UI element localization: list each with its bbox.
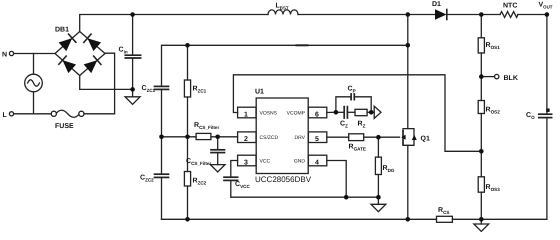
svg-text:CZC2: CZC2 [140,175,154,183]
svg-text:ROS2: ROS2 [486,107,501,115]
svg-text:5: 5 [315,136,319,143]
resistor ROS1 [478,15,484,101]
svg-text:1: 1 [244,112,248,119]
svg-text:RZC2: RZC2 [193,178,207,186]
capacitor CZC1 [155,86,169,136]
wire bottom rail right [452,218,547,220]
capacitor Cin [125,15,140,90]
svg-text:RZ: RZ [358,121,366,129]
pin 1 box [238,107,256,118]
ground (comp, sideways) [374,106,381,118]
wire pin3 to CVCC [231,161,238,178]
svg-text:DRV: DRV [295,135,306,141]
bridge diode top-left [59,34,76,51]
wire pin4 to ground line [327,161,346,198]
wire VOSNS sense: pin1 up and across to ROS2/ROS3 tap [233,75,481,152]
capacitor CVCC [224,177,238,197]
ground (bridge/Cin) [125,89,140,104]
wire NTC to Vout [518,14,547,16]
resistor RCS_Filter [196,133,211,139]
pin 4 box [308,155,326,166]
pin 2 box [238,132,256,143]
wire top rail right of D1 [447,14,500,16]
svg-text:CP: CP [348,86,356,94]
wire fuse to bridge right vertex [84,53,115,114]
svg-text:RCS: RCS [438,207,449,215]
L terminal [9,112,51,116]
AC source [25,54,43,114]
svg-text:4: 4 [315,160,319,167]
wire CZ to RZ [347,111,355,113]
capacitor CCS_Filter [211,137,225,165]
bridge diode bottom-left [59,56,76,73]
resistor ROS2 [478,101,484,177]
svg-text:ROS3: ROS3 [486,184,501,192]
svg-text:LBST: LBST [276,3,289,11]
svg-text:VOUT: VOUT [539,2,553,10]
wire signal ground line [231,196,379,198]
resistor RDG [375,137,381,197]
svg-text:CVCC: CVCC [235,181,250,189]
wire bottom rail [162,218,437,220]
svg-text:ROS1: ROS1 [486,42,501,50]
wire RGATE to gate [364,136,400,138]
svg-text:VOSNS: VOSNS [260,110,278,116]
capacitor CZ [344,107,347,118]
wire pin6 to comp network [336,111,344,113]
wire top rail left [80,15,268,32]
ground (control) [371,197,386,212]
inductor LBST [268,10,298,15]
diode D1 [435,9,447,19]
svg-text:CCS_Filter: CCS_Filter [186,158,211,166]
resistor RZC1 [184,45,190,137]
svg-text:VCC: VCC [260,158,271,164]
svg-text:6: 6 [315,112,319,119]
resistor RZ [355,109,367,115]
svg-text:FUSE: FUSE [55,123,74,130]
svg-text:GND: GND [294,158,306,164]
capacitor Co [539,15,552,220]
svg-text:RGATE: RGATE [349,144,366,152]
pin 5 box [308,132,348,143]
resistor RGATE [349,134,364,141]
svg-text:U1: U1 [255,89,264,96]
svg-text:CS/ZCD: CS/ZCD [260,135,279,141]
wire bridge bottom to ground node [80,76,133,90]
svg-text:DB1: DB1 [55,27,69,34]
svg-text:CZ: CZ [340,121,348,129]
svg-text:2: 2 [244,136,248,143]
svg-text:BLK: BLK [504,75,518,82]
svg-text:RZC1: RZC1 [193,86,207,94]
resistor NTC zigzag [500,12,518,18]
op-amp U1 body [256,98,308,174]
svg-text:NTC: NTC [503,3,517,10]
svg-text:D1: D1 [432,1,441,8]
svg-text:L: L [3,112,8,119]
svg-text:CO: CO [526,112,535,120]
svg-text:RCS_Filter: RCS_Filter [194,122,219,130]
bridge diode top-right [84,34,101,51]
svg-text:RDG: RDG [383,165,395,173]
bridge diode bottom-right [84,56,101,73]
svg-text:3: 3 [244,160,248,167]
node BLK [481,74,499,78]
svg-text:CZC1: CZC1 [142,85,156,93]
ground (CCS_Filter) [210,165,225,172]
N terminal [9,51,55,55]
resistor RZC2 [184,137,190,220]
svg-text:Cin: Cin [119,47,128,55]
svg-text:N: N [2,52,7,59]
pin 6 box [308,107,336,118]
resistor RCS [437,216,453,222]
ground (output divider) [474,219,489,231]
svg-text:VCOMP: VCOMP [287,110,306,116]
transistor Q1 [401,15,417,220]
bridge DB1 diamond wires [55,32,105,76]
svg-text:Q1: Q1 [421,136,430,143]
wire top rail mid [298,14,435,16]
wire RZ to comp end [367,111,374,113]
wire CS line [162,136,197,138]
fuse [51,110,84,117]
capacitor CZC2 [155,137,169,220]
polarity mark Co [546,109,549,112]
resistor ROS3 [478,177,484,220]
svg-text:UCC28056DBV: UCC28056DBV [255,175,312,184]
wire RCS_Filter to pin2 [211,136,238,138]
capacitor CP branch [336,94,371,112]
wire ZCD sense line [162,45,408,86]
pin 3 box [238,155,256,166]
